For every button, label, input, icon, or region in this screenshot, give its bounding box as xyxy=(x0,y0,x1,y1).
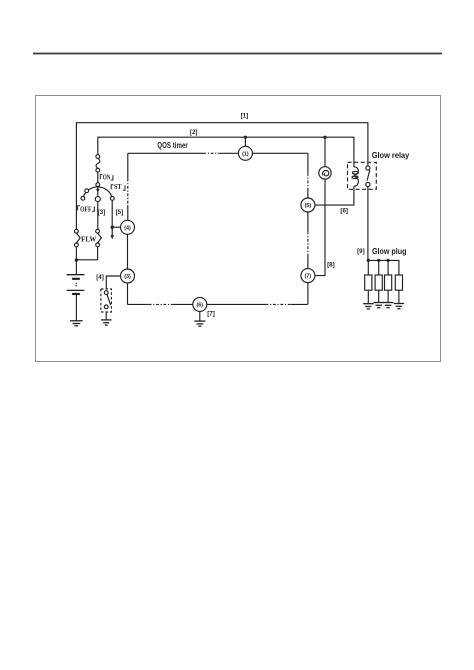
ignition switch arc xyxy=(83,187,113,199)
bracket OFF right xyxy=(92,207,94,212)
FLW fusible link right xyxy=(96,229,100,233)
QOS timer box bottom edge xyxy=(128,303,149,305)
wire ST node to timer pin (4) xyxy=(112,226,120,228)
timer pin circle (1) xyxy=(238,146,252,160)
svg-text:(3): (3) xyxy=(124,274,131,280)
ground glow plug 3 xyxy=(383,302,394,304)
ignition switch B contact xyxy=(96,155,100,159)
QOS timer box top edge xyxy=(128,152,204,154)
battery junction dot xyxy=(75,258,78,261)
bracket ST left xyxy=(111,185,113,190)
ground starter switch xyxy=(101,319,112,321)
wire [6] timer pin (5) to glow relay coil xyxy=(315,186,354,205)
svg-text:[4]: [4] xyxy=(96,274,104,281)
OFF contact xyxy=(81,196,85,200)
wire contact to pivot xyxy=(97,172,99,183)
glow indicator lamp xyxy=(319,167,331,179)
wire junction to indicator lamp xyxy=(324,137,326,166)
wire starter switch to ground xyxy=(105,312,107,320)
timer pin circle (5) xyxy=(301,198,315,212)
glow plug 4 xyxy=(395,275,402,290)
battery ground xyxy=(70,320,83,322)
wire relay contact to glow plug bus xyxy=(367,187,369,261)
svg-text:FLW: FLW xyxy=(81,235,97,244)
wire [8] lamp to timer pin (7) xyxy=(315,179,325,276)
glow plug 1 xyxy=(367,260,369,275)
starter switch dashed box xyxy=(101,289,112,312)
glow plug 2 xyxy=(378,260,380,275)
ground glow plug 1 xyxy=(363,303,374,305)
timer pin circle (4) xyxy=(121,220,135,234)
glow relay coil xyxy=(354,167,358,175)
wire junction to timer pin (1) xyxy=(244,137,246,146)
svg-text:(5): (5) xyxy=(305,203,312,209)
svg-text:ST: ST xyxy=(114,183,122,191)
timer pin circle (7) xyxy=(301,269,315,283)
bracket ON left xyxy=(100,175,102,180)
bracket OFF left xyxy=(78,206,80,211)
battery xyxy=(75,260,77,274)
ignition switch pivot xyxy=(96,183,100,187)
svg-text:OFF: OFF xyxy=(80,205,91,213)
timer pin circle (6) xyxy=(193,297,207,311)
svg-text:Glow relay: Glow relay xyxy=(372,151,410,160)
svg-text:(1): (1) xyxy=(242,151,249,157)
glow relay contact xyxy=(366,166,370,170)
wire timer pin (6) to ground xyxy=(199,311,201,321)
wire [3] ON contact to FLW xyxy=(97,202,99,230)
ground glow plug 4 xyxy=(394,303,405,305)
timer pin circle (3) xyxy=(121,269,135,283)
svg-text:[8]: [8] xyxy=(327,261,335,268)
svg-text:[7]: [7] xyxy=(207,310,215,317)
ACC contact xyxy=(85,189,89,193)
wire [1] battery feed to glow relay contact xyxy=(76,123,368,230)
svg-text:[9]: [9] xyxy=(357,248,365,255)
svg-text:[5]: [5] xyxy=(116,209,124,216)
svg-text:(6): (6) xyxy=(197,302,204,308)
svg-text:[3]: [3] xyxy=(98,209,106,216)
svg-text:[1]: [1] xyxy=(241,112,249,119)
ST contact xyxy=(110,197,114,201)
wire [5] ST contact to starter, arrow xyxy=(111,200,113,235)
junction dot wire [2] to indicator lamp xyxy=(323,136,326,139)
wire [2] ignition switch feed to glow relay coil xyxy=(98,137,354,167)
wire [4] timer pin (3) to starter switch xyxy=(106,276,120,289)
svg-text:ON: ON xyxy=(103,174,111,182)
wire FLW right to battery junction xyxy=(76,247,97,260)
glow plug 3 xyxy=(387,260,389,275)
bracket ST right xyxy=(123,185,125,190)
glow relay dashed box xyxy=(348,162,377,189)
svg-text:(7): (7) xyxy=(305,274,312,280)
junction dot wire [2] to timer pin (1) xyxy=(244,136,247,139)
QOS timer box left edge xyxy=(127,153,129,178)
svg-text:QOS timer: QOS timer xyxy=(157,141,188,150)
ground timer pin (6) xyxy=(194,320,205,322)
ground glow plug 2 xyxy=(374,302,385,304)
svg-text:[6]: [6] xyxy=(340,208,348,215)
ON contact xyxy=(95,197,100,202)
bracket ON right xyxy=(111,175,113,180)
QOS timer box right edge xyxy=(307,283,309,305)
svg-text:(4): (4) xyxy=(124,225,131,231)
glow plug bus xyxy=(368,260,399,275)
FLW fusible link left xyxy=(75,229,79,233)
svg-text:Glow plug: Glow plug xyxy=(372,247,407,256)
ignition switch squiggle link xyxy=(96,158,100,168)
svg-text:[2]: [2] xyxy=(190,129,198,136)
